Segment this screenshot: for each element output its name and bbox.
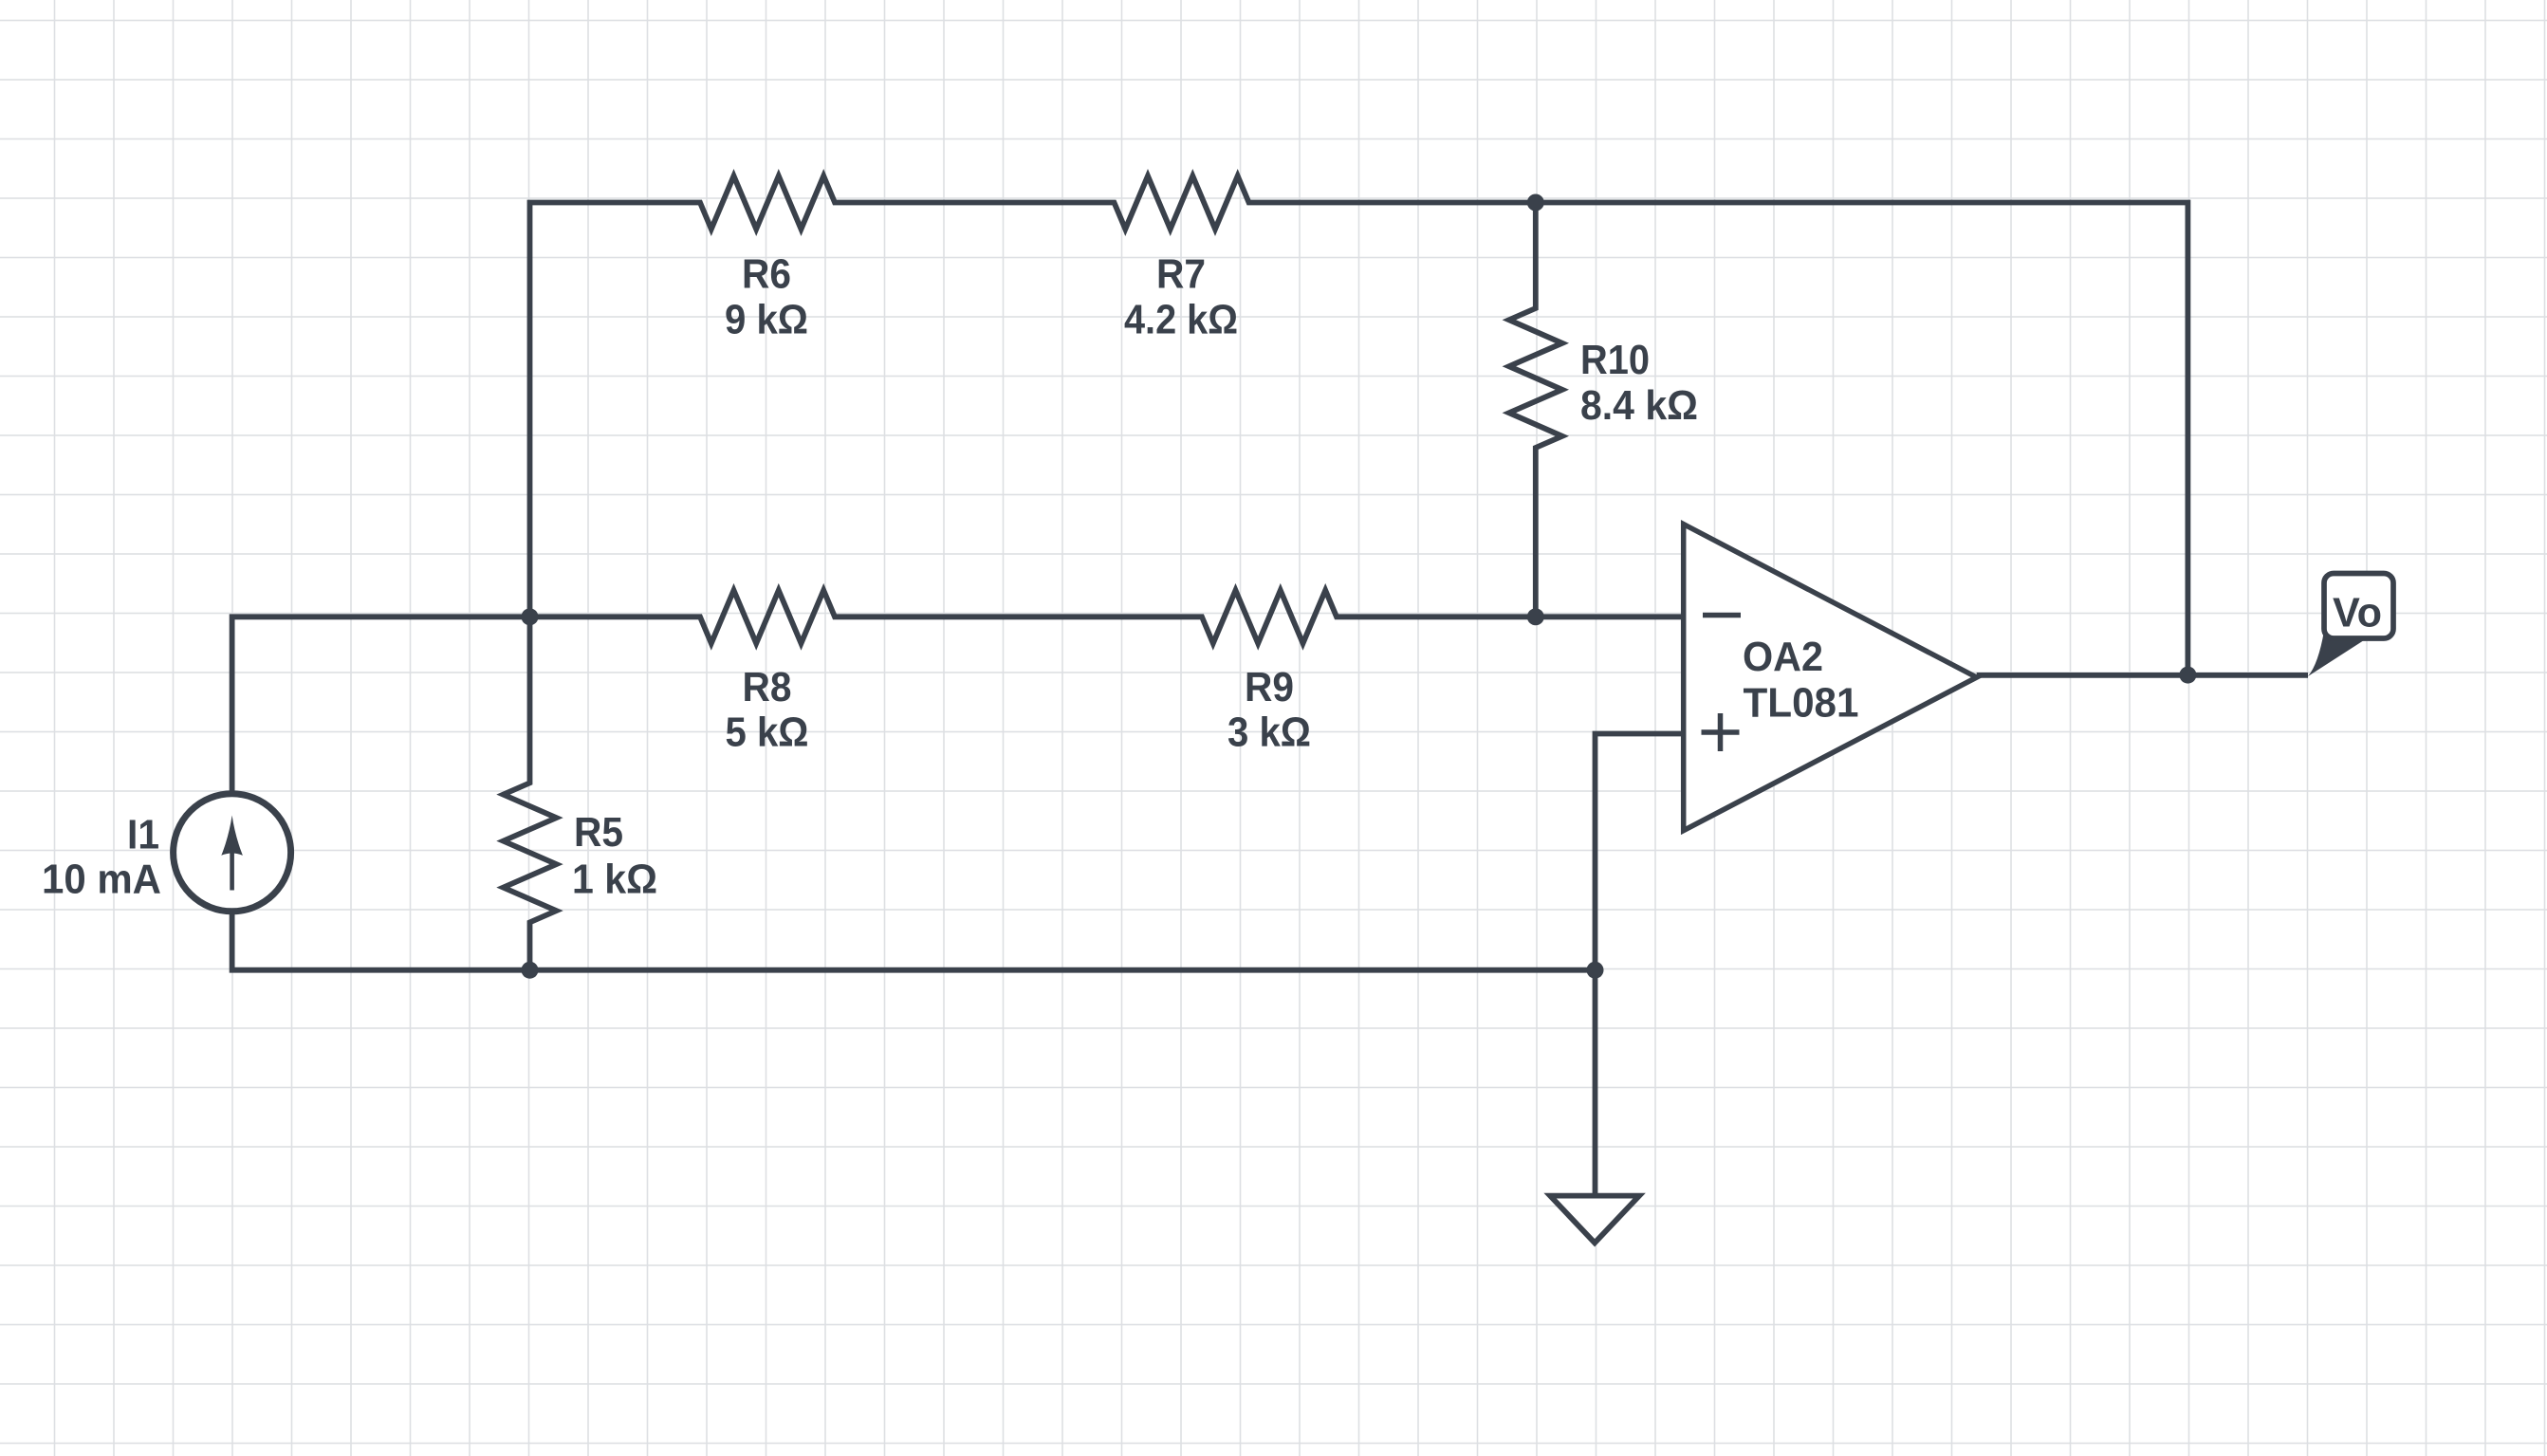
svg-text:R8: R8 <box>743 664 792 710</box>
svg-text:R7: R7 <box>1156 250 1206 297</box>
svg-text:R6: R6 <box>742 250 791 297</box>
svg-text:5 kΩ: 5 kΩ <box>726 709 809 755</box>
svg-text:Vo: Vo <box>2333 590 2382 636</box>
svg-text:9 kΩ: 9 kΩ <box>725 297 808 343</box>
svg-text:R5: R5 <box>574 809 623 856</box>
svg-text:1 kΩ: 1 kΩ <box>572 857 657 903</box>
svg-text:TL081: TL081 <box>1744 680 1859 727</box>
svg-text:I1: I1 <box>127 812 159 858</box>
svg-text:3 kΩ: 3 kΩ <box>1227 709 1311 755</box>
svg-text:R9: R9 <box>1245 664 1294 710</box>
svg-text:4.2 kΩ: 4.2 kΩ <box>1124 297 1238 343</box>
svg-text:10 mA: 10 mA <box>42 857 161 903</box>
svg-text:R10: R10 <box>1580 337 1650 383</box>
svg-text:OA2: OA2 <box>1743 634 1823 680</box>
svg-text:8.4 kΩ: 8.4 kΩ <box>1580 382 1698 429</box>
